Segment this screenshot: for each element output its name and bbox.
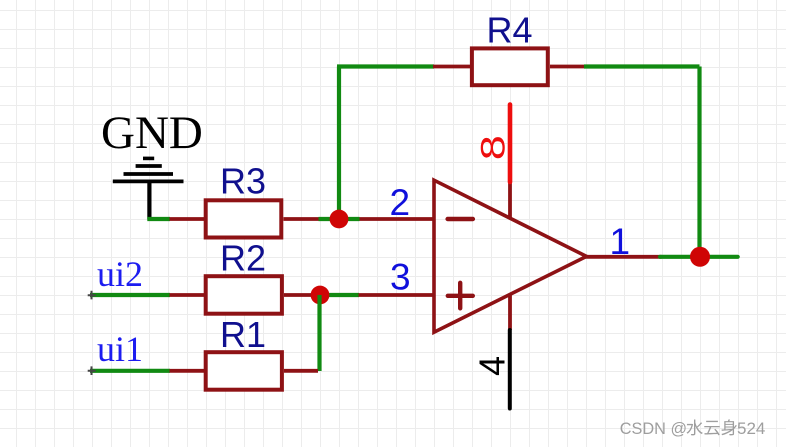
inverting input marker	[448, 217, 473, 221]
pin 4 power wire	[508, 330, 512, 409]
wire: R3 to node 2	[319, 217, 360, 221]
op-amp U1 triangle	[434, 180, 587, 332]
svg-text:GND: GND	[101, 107, 203, 159]
wire: ui2 input	[90, 293, 170, 297]
no-connect marker ui1	[88, 366, 96, 375]
wire: right vertical down to output node	[697, 67, 701, 257]
svg-text:1: 1	[610, 221, 631, 262]
svg-text:3: 3	[390, 257, 411, 298]
resistor R3	[170, 200, 320, 237]
wire: top horizontal left of R4	[337, 64, 434, 68]
svg-text:R1: R1	[220, 314, 266, 355]
junction node 2	[330, 210, 349, 229]
pin 4 stub	[508, 295, 512, 331]
pin 8 stub	[508, 182, 512, 219]
pin 8 power wire	[508, 105, 513, 183]
non-inverting input marker	[448, 283, 473, 309]
ground	[101, 107, 203, 220]
wire: ui1 input	[90, 369, 170, 373]
no-connect marker ui2	[88, 291, 96, 300]
svg-text:R3: R3	[220, 161, 266, 202]
resistor R2	[170, 276, 314, 314]
svg-text:CSDN @: CSDN @	[620, 420, 687, 438]
svg-text:4: 4	[472, 356, 513, 376]
svg-text:8: 8	[474, 135, 513, 160]
wire: top horizontal right of R4	[584, 64, 700, 68]
wire: node 3 down to R1	[317, 295, 321, 371]
svg-text:524: 524	[737, 419, 765, 438]
pin 3	[359, 293, 435, 297]
resistor R4	[433, 48, 586, 85]
wire: node 3 to op-amp	[312, 293, 359, 297]
svg-text:ui2: ui2	[97, 254, 143, 294]
pin 2	[360, 217, 435, 221]
watermark	[620, 419, 766, 438]
wire: output to node	[660, 255, 738, 259]
pin 1 output	[586, 255, 662, 259]
svg-text:ui1: ui1	[97, 329, 143, 369]
svg-text:2: 2	[390, 182, 411, 223]
wire: GND to R3	[147, 217, 170, 221]
svg-text:R4: R4	[487, 10, 533, 51]
svg-text:R2: R2	[220, 238, 266, 279]
wire: feedback vertical left (node 2 to R4 left)	[337, 67, 341, 220]
junction node 3	[311, 286, 330, 305]
junction output node 1	[690, 247, 710, 267]
resistor R1	[170, 352, 319, 390]
